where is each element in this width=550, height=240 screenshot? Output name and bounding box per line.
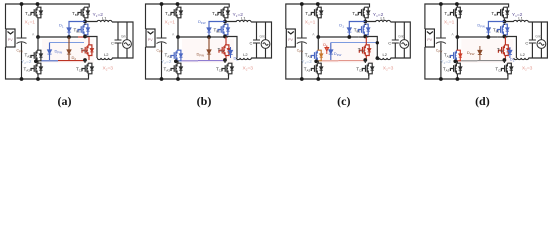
svg-text:TC2: TC2 xyxy=(495,67,502,73)
svg-text:X2=3: X2=3 xyxy=(103,66,114,72)
wire DFW branch panel a xyxy=(49,43,51,61)
wire TD drain panel d xyxy=(504,37,506,45)
PV source panel a xyxy=(6,29,15,47)
junction cap bottom panel c xyxy=(300,77,304,81)
inductor L2 panel d xyxy=(514,58,529,60)
transistor TM panel d xyxy=(450,50,462,61)
node B panel a xyxy=(83,35,87,39)
wire D2 branch panel a xyxy=(68,37,70,60)
capacitor C panel d xyxy=(529,40,536,43)
wire TM-TN link panel d xyxy=(456,61,458,64)
capacitor C panel b xyxy=(253,40,260,43)
svg-text:TB1: TB1 xyxy=(491,11,498,17)
diode D2 panel a xyxy=(67,50,71,54)
wire TB source panel a xyxy=(84,19,86,22)
node P panel d xyxy=(503,20,507,24)
capacitor C_PV panel c xyxy=(297,38,307,44)
wire node A to center panel a xyxy=(38,36,69,38)
svg-text:L2: L2 xyxy=(383,52,388,57)
svg-text:TC2: TC2 xyxy=(216,67,223,73)
svg-text:TA2: TA2 xyxy=(444,53,451,59)
wire TM-TN link panel c xyxy=(317,61,319,64)
svg-text:TA3: TA3 xyxy=(164,67,171,73)
svg-text:PV: PV xyxy=(8,38,13,42)
svg-text:TB2: TB2 xyxy=(214,28,221,34)
wire clamp top branch panel b xyxy=(209,22,225,38)
junction cap top panel a xyxy=(20,2,24,6)
wire top rail panel c xyxy=(286,4,370,29)
junction TN bottom panel b xyxy=(176,77,180,81)
wire mid bottom right panel d xyxy=(477,60,504,62)
wire TA leg panel c xyxy=(317,4,319,37)
junction cap top panel c xyxy=(300,2,304,6)
wire C branch panel a xyxy=(117,22,119,58)
svg-text:C: C xyxy=(525,41,528,46)
transistor TC panel a xyxy=(78,24,90,35)
wire mid bottom left panel a xyxy=(41,60,58,62)
wire output top and right panel c xyxy=(365,22,410,59)
wire TM-TN link panel b xyxy=(177,61,179,64)
transistor TC panel c xyxy=(358,24,370,35)
wire D2 branch panel b xyxy=(208,37,210,60)
wire TK leads panel a xyxy=(85,60,89,76)
wire output top and right panel d xyxy=(504,22,547,59)
svg-text:TA3: TA3 xyxy=(304,67,311,73)
wire top rail panel b xyxy=(146,4,230,29)
node C panel b xyxy=(207,35,211,39)
wire center to right leg panel a xyxy=(78,36,88,38)
node P panel a xyxy=(83,20,87,24)
svg-text:C: C xyxy=(111,41,114,46)
wire output tap bottom panel a xyxy=(85,37,97,59)
highlight wash panel c xyxy=(322,39,374,63)
highlight wash panel d xyxy=(461,39,513,63)
junction TM-TN panel d xyxy=(453,60,457,64)
wire TA leg panel b xyxy=(177,4,179,37)
wire TK leads panel b xyxy=(225,60,229,76)
diode DFW panel c xyxy=(329,50,333,54)
svg-text:Grid: Grid xyxy=(121,35,127,39)
svg-text:TB2: TB2 xyxy=(354,28,361,34)
wire TM drain panel d xyxy=(456,37,458,51)
svg-text:L2: L2 xyxy=(243,52,248,57)
node A panel c xyxy=(316,35,320,39)
node D panel b xyxy=(223,58,227,62)
wire grid branch panel b xyxy=(265,22,267,58)
transistor TB panel b xyxy=(218,7,230,18)
node C panel c xyxy=(347,35,351,39)
transistor TD panel c xyxy=(359,45,371,56)
transistor TK panel a xyxy=(82,63,94,74)
svg-text:TA2: TA2 xyxy=(25,53,32,59)
wire TN source panel b xyxy=(177,74,179,79)
junction TN bottom panel c xyxy=(316,77,320,81)
inductor L1 panel b xyxy=(236,20,251,22)
transistor TB panel d xyxy=(497,7,509,18)
diode D1 clamp top panel c xyxy=(347,28,351,32)
wire TN source panel c xyxy=(317,74,319,79)
wire top rail panel d xyxy=(425,4,509,29)
svg-text:C: C xyxy=(250,41,253,46)
highlight wash panel a xyxy=(42,39,94,63)
wire C branch panel b xyxy=(256,22,258,58)
wire output tap bottom panel c xyxy=(365,37,377,59)
transistor TN panel c xyxy=(311,63,323,74)
AC grid source panel b xyxy=(261,40,270,49)
svg-text:Y2=2: Y2=2 xyxy=(440,59,451,65)
svg-text:Y2=2: Y2=2 xyxy=(21,59,32,65)
svg-text:X2=3: X2=3 xyxy=(522,66,533,72)
wire TN source panel d xyxy=(456,74,458,79)
junction TA drain panel d xyxy=(455,2,459,6)
svg-text:TC1: TC1 xyxy=(358,47,365,53)
wire TC source panel d xyxy=(503,24,505,37)
wire TB source panel d xyxy=(503,19,505,22)
transistor TB panel c xyxy=(358,7,370,18)
wire bottom rail panel b xyxy=(146,47,229,79)
wire TK leads panel c xyxy=(365,60,369,76)
diode D marker panel c xyxy=(325,46,329,55)
svg-text:Y2=2: Y2=2 xyxy=(301,59,312,65)
wire grid branch panel a xyxy=(126,22,128,58)
transistor TN panel a xyxy=(31,63,43,74)
wire grid branch panel d xyxy=(540,22,542,58)
junction clamp tap top panel c xyxy=(376,41,379,44)
svg-text:TC1: TC1 xyxy=(81,47,88,53)
wire TM drain panel a xyxy=(37,37,39,51)
inductor L1 panel c xyxy=(376,20,391,22)
diode D3 antiparallel panel d xyxy=(508,50,512,54)
wire antiparallel diode panel d xyxy=(509,47,511,58)
transistor TA panel a xyxy=(31,7,43,18)
PV source panel d xyxy=(425,29,434,47)
svg-text:TB2: TB2 xyxy=(74,28,81,34)
svg-text:TA1: TA1 xyxy=(305,11,312,17)
node C panel d xyxy=(487,35,491,39)
wire mid bottom right panel a xyxy=(58,60,85,62)
wire bottom rail panel a xyxy=(6,47,89,79)
AC grid source panel a xyxy=(123,40,132,49)
wire node A to center panel d xyxy=(457,36,488,38)
AC grid source panel c xyxy=(400,40,409,49)
transistor TB panel a xyxy=(78,7,90,18)
svg-text:PV: PV xyxy=(148,38,153,42)
node D panel c xyxy=(363,58,367,62)
wire TA leg panel a xyxy=(37,4,39,37)
svg-text:TB1: TB1 xyxy=(212,11,219,17)
wire mid bottom left panel c xyxy=(321,60,338,62)
junction TA drain panel c xyxy=(316,2,320,6)
wire clamp horizontal panel c xyxy=(331,42,378,44)
svg-text:TA3: TA3 xyxy=(24,67,31,73)
svg-text:CPV: CPV xyxy=(157,49,163,54)
junction TM-TN panel a xyxy=(34,60,38,64)
wire TC source panel c xyxy=(364,24,366,37)
PV source panel b xyxy=(146,29,155,47)
svg-text:TA3: TA3 xyxy=(443,67,450,73)
transistor TM panel b xyxy=(171,50,183,61)
wire center to right leg panel b xyxy=(218,36,228,38)
wire center dark segment panel d xyxy=(488,36,497,38)
svg-text:TA1: TA1 xyxy=(444,11,451,17)
transistor TA panel c xyxy=(311,7,323,18)
transistor TK panel c xyxy=(362,63,374,74)
wire bottom rail panel c xyxy=(286,47,369,79)
svg-text:L1: L1 xyxy=(102,16,107,21)
svg-text:TB1: TB1 xyxy=(72,11,79,17)
wire antiparallel diode panel b xyxy=(230,47,232,58)
svg-text:DFW: DFW xyxy=(197,52,205,58)
svg-text:DFW: DFW xyxy=(334,51,342,57)
diode DFW small panel d xyxy=(478,50,482,54)
wire TK leads panel d xyxy=(504,60,508,76)
wire TD source panel b xyxy=(225,56,227,61)
svg-text:X1=1: X1=1 xyxy=(444,20,455,26)
capacitor C_PV panel b xyxy=(157,38,167,44)
diode D1 clamp top panel a xyxy=(67,28,71,32)
transistor TA panel b xyxy=(171,7,183,18)
diode D1 clamp top panel d xyxy=(486,28,490,32)
wire output tap bottom panel b xyxy=(225,37,237,59)
diode DFW panel a xyxy=(47,50,51,54)
node B panel b xyxy=(223,35,227,39)
wire DFW small branch panel d xyxy=(479,46,481,60)
wire node A to center panel b xyxy=(178,36,209,38)
svg-text:TC2: TC2 xyxy=(356,67,363,73)
wire center dark segment panel c xyxy=(349,36,358,38)
svg-text:TA1: TA1 xyxy=(25,11,32,17)
svg-text:L1: L1 xyxy=(381,16,386,21)
wire C_PV branch panel c xyxy=(301,4,303,79)
node P panel c xyxy=(363,20,367,24)
capacitor C_PV panel d xyxy=(436,38,446,44)
inductor L2 panel c xyxy=(376,58,391,60)
wire TC source panel b xyxy=(224,24,226,37)
svg-text:TB2: TB2 xyxy=(493,28,500,34)
svg-text:X2=3: X2=3 xyxy=(243,66,254,72)
transistor TA panel d xyxy=(450,7,462,18)
svg-text:L1: L1 xyxy=(518,16,523,21)
transistor TM panel a xyxy=(31,50,43,61)
wire grid branch panel c xyxy=(403,22,405,58)
wire TD source panel a xyxy=(88,56,90,61)
svg-text:(d): (d) xyxy=(475,94,490,108)
wire TC source panel a xyxy=(84,24,86,37)
capacitor C_PV panel a xyxy=(17,38,27,44)
svg-text:PV: PV xyxy=(288,38,293,42)
svg-text:CPV: CPV xyxy=(17,49,23,54)
AC grid source panel d xyxy=(537,40,546,49)
wire TB source panel b xyxy=(224,19,226,22)
transistor TD panel b xyxy=(219,45,231,56)
svg-text:X1=1: X1=1 xyxy=(25,20,36,26)
transistor TK panel b xyxy=(222,63,234,74)
svg-text:CPV: CPV xyxy=(436,49,442,54)
svg-text:L2: L2 xyxy=(104,52,109,57)
svg-text:D1: D1 xyxy=(59,23,64,29)
junction cap bottom panel b xyxy=(160,77,164,81)
svg-text:TC1: TC1 xyxy=(497,47,504,53)
transistor TD panel a xyxy=(82,45,94,56)
svg-text:D1: D1 xyxy=(339,23,344,29)
svg-text:X1=1: X1=1 xyxy=(165,20,176,26)
svg-text:L1: L1 xyxy=(241,16,246,21)
diode D3 antiparallel panel b xyxy=(228,50,232,54)
highlight wash panel b xyxy=(182,39,234,63)
node B panel c xyxy=(363,35,367,39)
wire TN source panel a xyxy=(37,74,39,79)
junction TA drain panel b xyxy=(176,2,180,6)
wire center to right leg panel c xyxy=(358,36,368,38)
svg-text:X2=3: X2=3 xyxy=(383,66,394,72)
PV source panel c xyxy=(286,29,295,47)
junction clamp tap bottom panel c xyxy=(376,56,379,59)
wire TB source panel c xyxy=(364,19,366,22)
node P panel b xyxy=(223,20,227,24)
svg-text:(a): (a) xyxy=(58,94,72,108)
transistor TD panel d xyxy=(498,45,510,56)
wire node A to center panel c xyxy=(318,36,349,38)
capacitor C panel c xyxy=(392,40,399,43)
svg-text:L2: L2 xyxy=(520,52,525,57)
node D panel a xyxy=(83,58,87,62)
wire clamp top branch panel a xyxy=(69,22,85,38)
svg-text:X1=1: X1=1 xyxy=(305,20,316,26)
svg-text:Grid: Grid xyxy=(398,35,404,39)
wire TM drain panel c xyxy=(317,37,319,51)
svg-text:D2: D2 xyxy=(72,55,77,61)
svg-text:DFW: DFW xyxy=(198,19,206,25)
wire center dark segment panel a xyxy=(69,36,78,38)
wire output top and right panel b xyxy=(225,22,272,59)
wire TM-TN link panel a xyxy=(37,61,39,64)
node B panel d xyxy=(503,35,507,39)
wire center dark segment panel b xyxy=(209,36,218,38)
wire C_PV branch panel d xyxy=(440,4,442,79)
diode D1 clamp top panel b xyxy=(207,28,211,32)
capacitor C panel a xyxy=(115,40,122,43)
svg-text:Grid: Grid xyxy=(535,35,541,39)
wire TD drain panel a xyxy=(88,37,90,45)
wire output top and right panel a xyxy=(85,22,133,59)
node A panel d xyxy=(456,35,460,39)
transistor TC panel d xyxy=(497,24,509,35)
svg-text:Y2=2: Y2=2 xyxy=(161,59,172,65)
junction cap bottom panel d xyxy=(439,77,443,81)
junction TN bottom panel d xyxy=(456,77,460,81)
junction cap bottom panel a xyxy=(20,77,24,81)
node A panel b xyxy=(176,35,180,39)
svg-text:TB1: TB1 xyxy=(352,11,359,17)
svg-text:TC2: TC2 xyxy=(76,67,83,73)
junction TA drain panel a xyxy=(36,2,40,6)
svg-text:DFW: DFW xyxy=(467,50,475,56)
svg-text:D: D xyxy=(323,43,326,47)
transistor TK panel d xyxy=(501,63,513,74)
inductor L2 panel b xyxy=(236,58,251,60)
wire clamp top branch panel d xyxy=(488,22,504,38)
wire mid bottom right panel b xyxy=(198,60,225,62)
node D panel d xyxy=(503,58,507,62)
svg-text:TA2: TA2 xyxy=(165,53,172,59)
transistor TC panel b xyxy=(218,24,230,35)
wire bottom rail panel d xyxy=(425,47,508,79)
svg-text:Grid: Grid xyxy=(260,35,266,39)
wire C branch panel c xyxy=(394,22,396,58)
svg-text:DFW: DFW xyxy=(55,49,63,55)
svg-text:PV: PV xyxy=(427,38,432,42)
wire mid bottom left panel d xyxy=(460,60,477,62)
wire TD source panel c xyxy=(365,56,367,61)
transistor TM panel c xyxy=(311,50,323,61)
node C panel a xyxy=(67,35,71,39)
junction cap top panel b xyxy=(160,2,164,6)
svg-text:CPV: CPV xyxy=(297,49,303,54)
wire top rail panel a xyxy=(6,4,90,29)
wire C_PV branch panel b xyxy=(161,4,163,79)
svg-text:TA2: TA2 xyxy=(305,53,312,59)
wire mid bottom right panel c xyxy=(338,60,365,62)
inductor L2 panel a xyxy=(97,58,112,60)
wire output tap bottom panel d xyxy=(504,37,516,59)
junction cap top panel d xyxy=(439,2,443,6)
wire clamp top branch panel c xyxy=(349,22,365,38)
transistor TN panel b xyxy=(171,63,183,74)
wire center to right leg panel d xyxy=(497,36,507,38)
node A panel a xyxy=(36,35,40,39)
wire TA leg panel d xyxy=(456,4,458,37)
junction TM-TN panel c xyxy=(314,60,318,64)
wire C_PV branch panel a xyxy=(21,4,23,79)
inductor L1 panel a xyxy=(97,20,112,22)
wire C branch panel d xyxy=(531,22,533,58)
svg-text:TA1: TA1 xyxy=(165,11,172,17)
inductor L1 panel d xyxy=(513,20,528,22)
wire TD source panel d xyxy=(504,56,506,61)
wire clamp horizontal panel a xyxy=(50,42,85,44)
wire TD drain panel c xyxy=(365,37,367,45)
transistor TN panel d xyxy=(450,63,462,74)
wire TD drain panel b xyxy=(225,37,227,45)
svg-text:(b): (b) xyxy=(197,94,212,108)
svg-text:(c): (c) xyxy=(337,94,350,108)
svg-text:TC1: TC1 xyxy=(218,47,225,53)
svg-text:DFW: DFW xyxy=(477,23,485,29)
svg-text:C: C xyxy=(388,41,391,46)
wire TM drain panel b xyxy=(177,37,179,51)
wire DFW branch panel c xyxy=(330,43,332,61)
diode D2 panel b xyxy=(207,50,211,54)
wire mid bottom left panel b xyxy=(181,60,198,62)
junction TN bottom panel a xyxy=(36,77,40,81)
junction TM-TN panel b xyxy=(174,60,178,64)
